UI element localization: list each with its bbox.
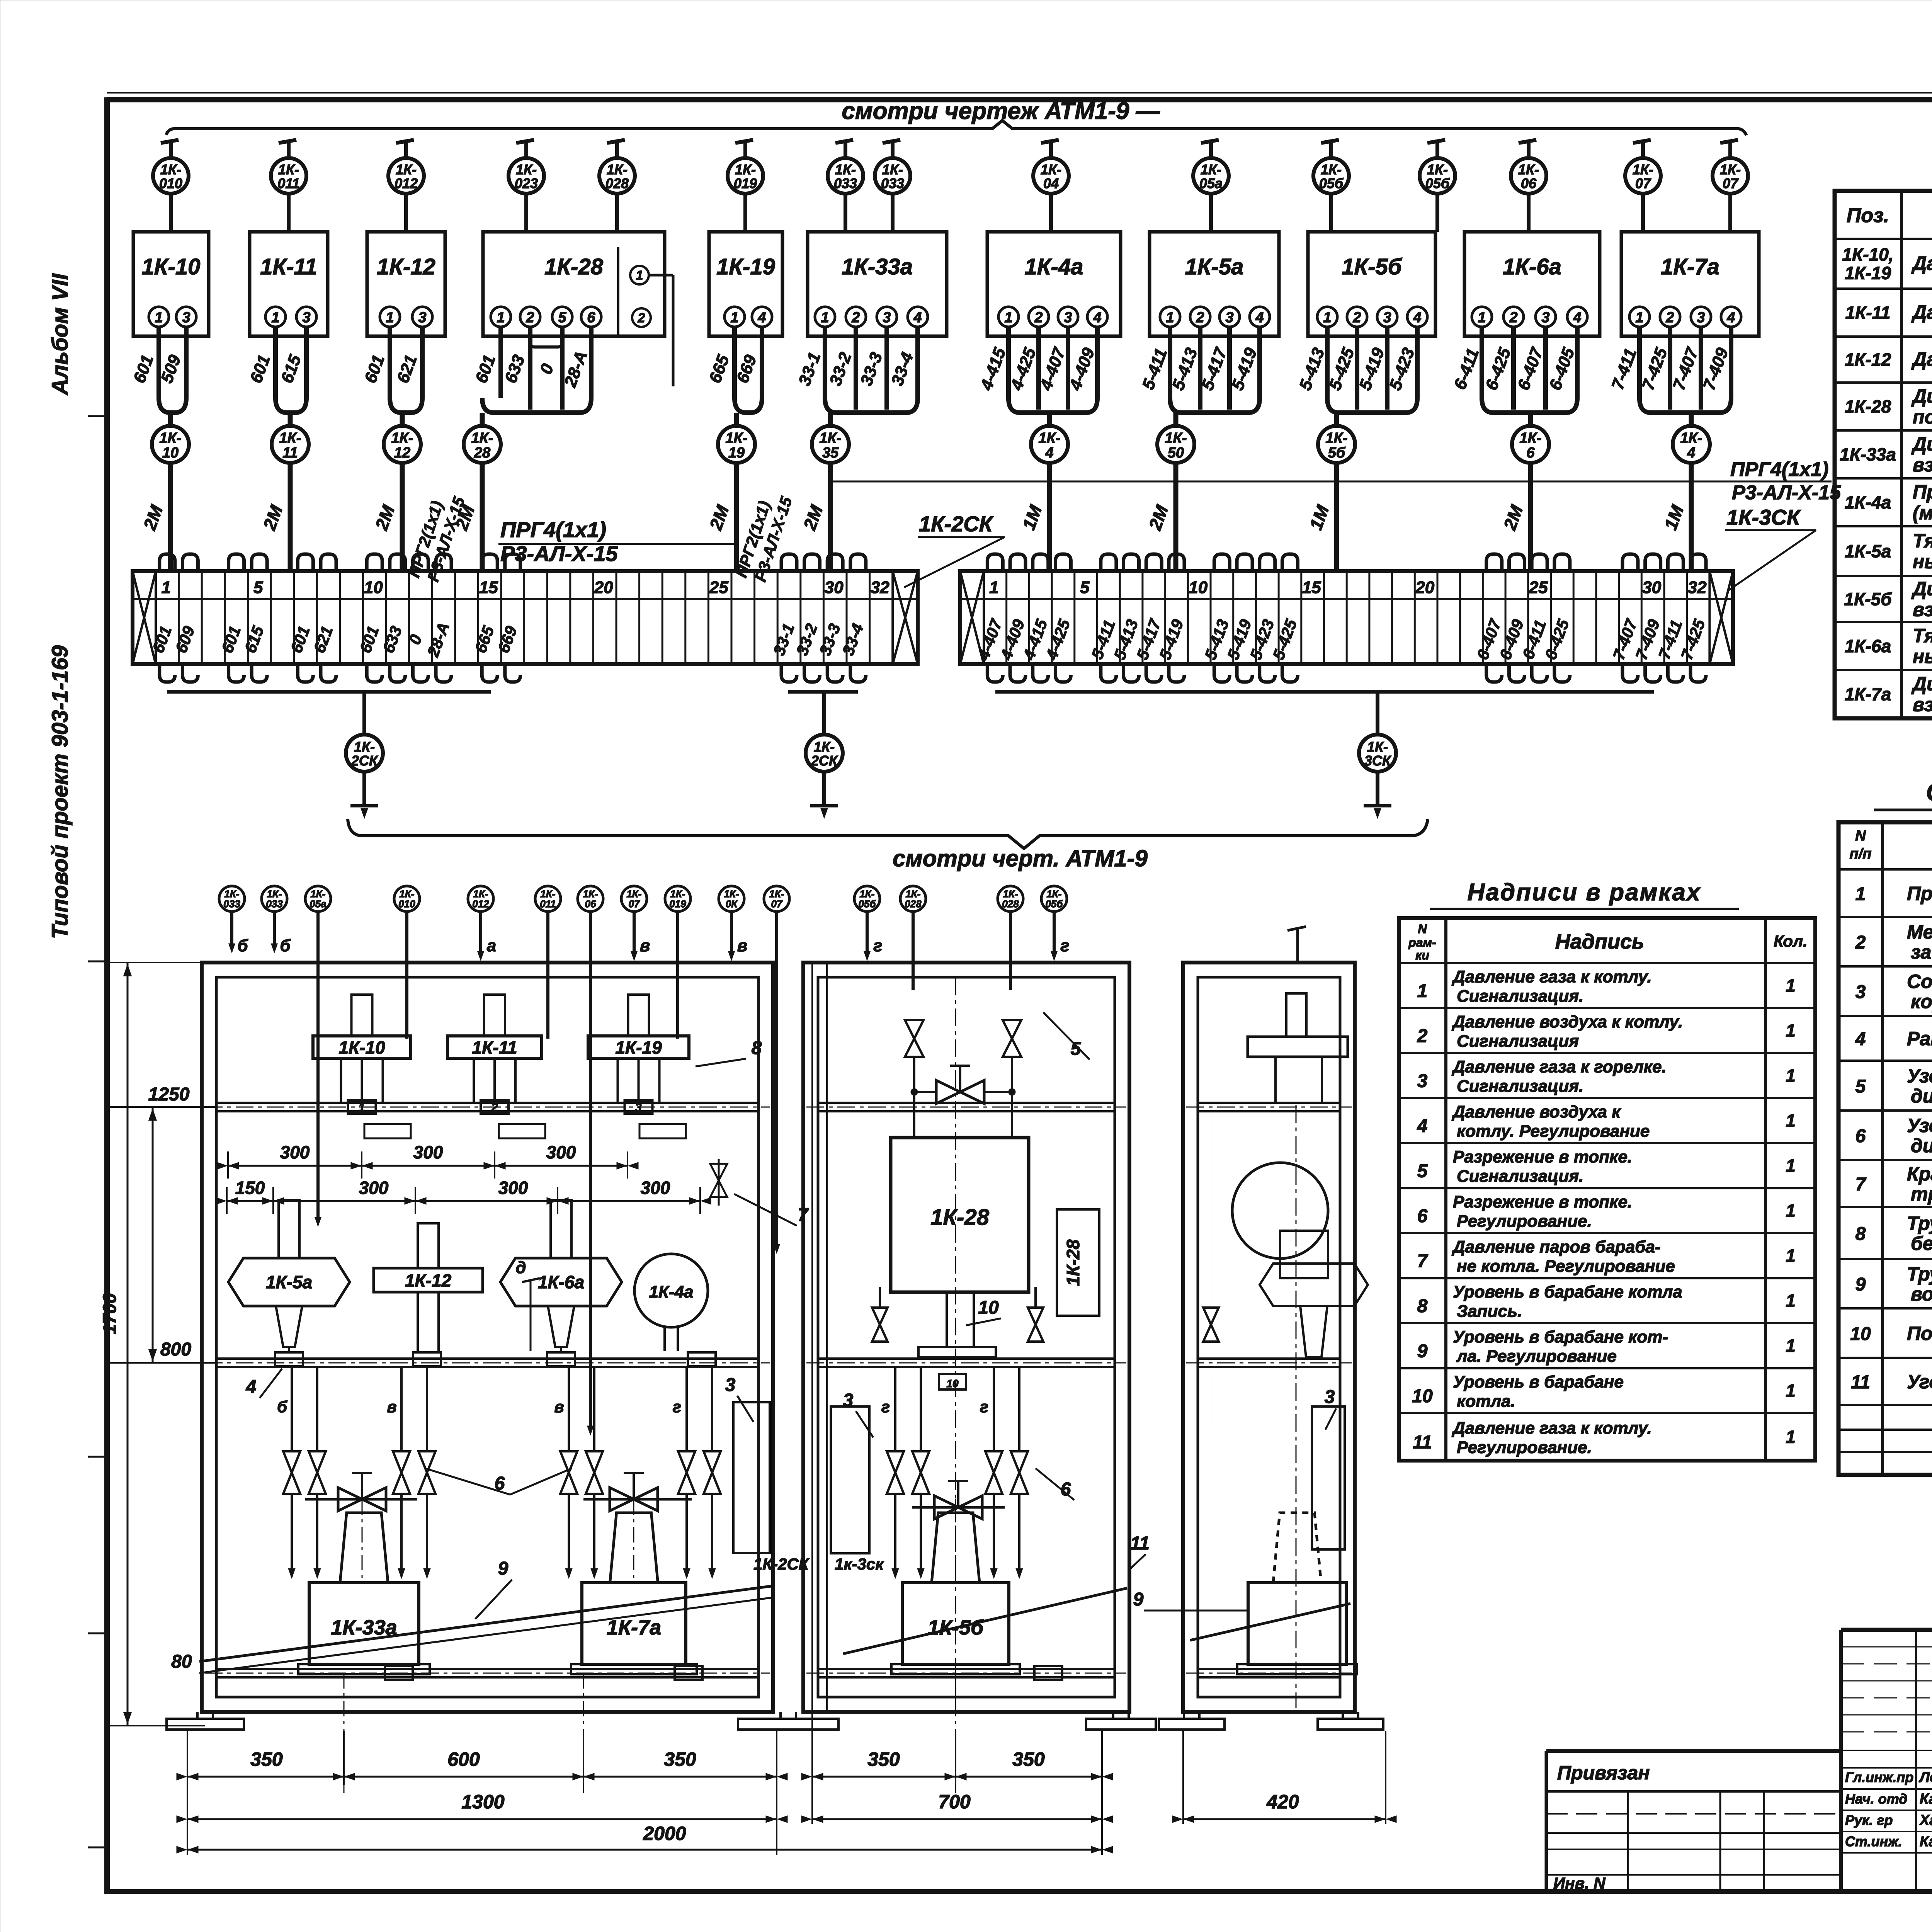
svg-text:д: д — [515, 1258, 526, 1277]
svg-text:1: 1 — [1323, 310, 1331, 326]
svg-text:1К-5а: 1К-5а — [1845, 541, 1891, 561]
svg-text:1К-: 1К- — [882, 162, 903, 177]
svg-text:1: 1 — [1786, 1201, 1796, 1221]
svg-text:4: 4 — [1045, 445, 1053, 461]
svg-text:2: 2 — [491, 1101, 498, 1114]
svg-text:1К-: 1К- — [279, 430, 301, 446]
svg-text:1К-28: 1К-28 — [930, 1205, 989, 1230]
svg-text:Гл.инж.пр: Гл.инж.пр — [1845, 1769, 1913, 1785]
svg-text:05а: 05а — [1199, 175, 1223, 191]
svg-text:19: 19 — [728, 445, 745, 461]
svg-text:2: 2 — [851, 310, 860, 326]
svg-text:1: 1 — [1786, 1381, 1796, 1401]
svg-text:3: 3 — [843, 1390, 854, 1411]
svg-text:4: 4 — [1855, 1029, 1866, 1049]
svg-text:1К-11: 1К-11 — [260, 254, 317, 279]
svg-text:6: 6 — [1417, 1206, 1428, 1226]
svg-text:3: 3 — [883, 310, 891, 326]
svg-text:1: 1 — [162, 578, 171, 597]
svg-text:1: 1 — [271, 310, 279, 326]
svg-text:350: 350 — [250, 1748, 283, 1770]
svg-text:Надписи в рамках: Надписи в рамках — [1468, 879, 1701, 906]
svg-text:1К-7а: 1К-7а — [607, 1616, 661, 1639]
svg-text:1К-7а: 1К-7а — [1661, 254, 1719, 279]
svg-text:010: 010 — [398, 898, 415, 910]
svg-text:1К-: 1К- — [1633, 162, 1653, 177]
svg-text:20: 20 — [594, 578, 613, 597]
svg-text:Поз.: Поз. — [1847, 204, 1889, 227]
svg-text:Труба стальная: Труба стальная — [1907, 1213, 1932, 1234]
svg-text:019: 019 — [669, 898, 686, 910]
svg-text:Сигнализация.: Сигнализация. — [1457, 1077, 1583, 1096]
svg-text:п/п: п/п — [1850, 846, 1872, 862]
svg-text:5: 5 — [1855, 1077, 1866, 1097]
svg-text:показывающий сигнализирующ.: показывающий сигнализирующ. — [1913, 406, 1932, 428]
svg-text:6: 6 — [1526, 445, 1535, 461]
svg-text:1: 1 — [1786, 1066, 1796, 1086]
svg-text:ПРГ4(1х1): ПРГ4(1х1) — [1730, 458, 1828, 481]
svg-text:1К-28: 1К-28 — [1845, 396, 1891, 417]
svg-text:в: в — [554, 1398, 564, 1416]
svg-text:Р3-АЛ-Х-15: Р3-АЛ-Х-15 — [1732, 481, 1841, 504]
svg-text:1К-7а: 1К-7а — [1845, 684, 1891, 704]
svg-text:N: N — [1418, 922, 1427, 936]
svg-text:Рук. гр: Рук. гр — [1845, 1812, 1893, 1828]
svg-text:1: 1 — [730, 310, 738, 326]
svg-text:420: 420 — [1266, 1791, 1299, 1813]
svg-text:1: 1 — [1417, 981, 1428, 1002]
svg-text:в: в — [640, 936, 650, 955]
svg-text:3: 3 — [418, 310, 426, 326]
svg-text:07: 07 — [1635, 175, 1651, 191]
svg-text:1К-4а: 1К-4а — [649, 1282, 693, 1301]
svg-text:Узел обвязки: Узел обвязки — [1907, 1115, 1932, 1136]
svg-text:Труба: Труба — [1907, 1263, 1932, 1285]
svg-text:Узел обвязки: Узел обвязки — [1907, 1065, 1932, 1087]
svg-text:1К-5б: 1К-5б — [1342, 254, 1402, 279]
svg-text:Датчик-реле напора: Датчик-реле напора — [1911, 253, 1932, 274]
svg-text:Альбом VII: Альбом VII — [48, 273, 73, 396]
svg-text:9: 9 — [1133, 1589, 1144, 1610]
svg-text:1: 1 — [1786, 1427, 1796, 1447]
svg-text:1К-: 1К- — [835, 162, 856, 177]
svg-text:1К-: 1К- — [354, 739, 375, 755]
svg-text:028: 028 — [1002, 898, 1019, 910]
svg-text:9: 9 — [1417, 1341, 1428, 1362]
svg-text:05а: 05а — [310, 898, 326, 910]
svg-text:1К-: 1К- — [516, 162, 537, 177]
svg-text:9: 9 — [498, 1558, 509, 1579]
svg-text:300: 300 — [413, 1142, 443, 1162]
svg-text:N: N — [1855, 828, 1866, 844]
svg-text:г: г — [881, 1398, 890, 1416]
svg-text:4: 4 — [1573, 310, 1581, 326]
svg-text:1К-19: 1К-19 — [1845, 263, 1891, 283]
svg-text:10: 10 — [978, 1298, 999, 1318]
svg-text:Давление газа к горелке.: Давление газа к горелке. — [1451, 1058, 1667, 1077]
svg-text:смотри черт. АТМ1-9: смотри черт. АТМ1-9 — [893, 845, 1148, 871]
svg-text:05б: 05б — [1425, 175, 1450, 191]
svg-text:1: 1 — [1786, 1336, 1796, 1356]
svg-text:Дифманометр мембранный: Дифманометр мембранный — [1911, 578, 1932, 600]
svg-text:300: 300 — [359, 1178, 389, 1198]
svg-text:300: 300 — [280, 1142, 310, 1162]
svg-text:смотри чертеж АТМ1-9 —: смотри чертеж АТМ1-9 — — [842, 98, 1160, 124]
svg-text:1К-: 1К- — [1720, 162, 1741, 177]
svg-text:32: 32 — [871, 578, 889, 597]
svg-text:1К-: 1К- — [1325, 430, 1347, 446]
svg-text:Спецификация основных монта: Спецификация основных монтажных материал… — [1926, 778, 1932, 806]
svg-text:1К-4а: 1К-4а — [1845, 492, 1891, 512]
svg-text:3: 3 — [1417, 1071, 1428, 1092]
svg-text:Сигнализация: Сигнализация — [1457, 1032, 1579, 1051]
svg-text:1К-19: 1К-19 — [716, 254, 775, 279]
svg-text:1К-12: 1К-12 — [405, 1270, 452, 1291]
svg-text:(манометр): (манометр) — [1913, 502, 1932, 524]
svg-text:1К-3СК: 1К-3СК — [1726, 505, 1801, 529]
svg-text:150: 150 — [235, 1178, 265, 1198]
svg-text:Давление воздуха к: Давление воздуха к — [1451, 1102, 1621, 1121]
svg-text:Давление газа к котлу.: Давление газа к котлу. — [1451, 1419, 1652, 1438]
svg-text:1К-: 1К- — [607, 162, 628, 177]
svg-text:Дифманометр мембранный: Дифманометр мембранный — [1911, 433, 1932, 455]
svg-text:6: 6 — [1855, 1126, 1866, 1146]
svg-text:07: 07 — [771, 898, 783, 910]
svg-text:4: 4 — [1413, 310, 1421, 326]
svg-text:1К-: 1К- — [160, 162, 181, 177]
svg-text:г: г — [1060, 936, 1069, 955]
svg-text:Каратышева: Каратышева — [1920, 1833, 1932, 1850]
svg-text:Инв. N: Инв. N — [1553, 1874, 1606, 1892]
svg-text:5: 5 — [558, 310, 566, 326]
svg-text:3: 3 — [1855, 982, 1866, 1002]
svg-text:4: 4 — [1726, 310, 1735, 326]
svg-text:1К-: 1К- — [391, 430, 413, 446]
svg-text:10: 10 — [364, 578, 383, 597]
svg-text:50: 50 — [1168, 445, 1184, 461]
svg-text:4: 4 — [1093, 310, 1101, 326]
svg-text:6: 6 — [587, 310, 595, 326]
svg-text:11: 11 — [282, 445, 298, 461]
svg-text:Тягомер дифференциаль-: Тягомер дифференциаль- — [1913, 625, 1932, 646]
svg-text:1: 1 — [359, 1101, 365, 1114]
svg-text:1: 1 — [1166, 310, 1174, 326]
svg-text:1: 1 — [1004, 310, 1012, 326]
svg-text:7: 7 — [798, 1205, 809, 1225]
svg-text:Датчик-реле напора и тяги: Датчик-реле напора и тяги — [1911, 349, 1932, 370]
svg-text:80: 80 — [171, 1651, 192, 1672]
svg-text:10: 10 — [946, 1378, 959, 1389]
svg-text:30: 30 — [825, 578, 844, 597]
svg-text:8: 8 — [1855, 1224, 1866, 1244]
svg-text:1: 1 — [1635, 310, 1643, 326]
svg-text:1К-: 1К- — [1518, 162, 1539, 177]
svg-text:трехходовой: трехходовой — [1911, 1183, 1932, 1205]
svg-text:дифманометра: дифманометра — [1911, 1085, 1932, 1107]
svg-text:1К-: 1К- — [1680, 430, 1702, 446]
svg-text:1: 1 — [821, 310, 829, 326]
svg-text:1К-5а: 1К-5а — [1185, 254, 1244, 279]
svg-text:1К-: 1К- — [735, 162, 756, 177]
svg-text:1К-4а: 1К-4а — [1025, 254, 1083, 279]
svg-text:г: г — [873, 936, 882, 955]
svg-text:б: б — [237, 936, 248, 955]
svg-text:Разрежение в топке.: Разрежение в топке. — [1453, 1148, 1632, 1167]
svg-text:1: 1 — [1786, 976, 1796, 996]
svg-text:4: 4 — [1417, 1116, 1428, 1136]
svg-text:коробка: коробка — [1911, 991, 1932, 1012]
svg-text:1: 1 — [1786, 1156, 1796, 1176]
svg-text:9: 9 — [1855, 1274, 1866, 1295]
svg-text:2: 2 — [1417, 1026, 1428, 1046]
svg-text:012: 012 — [395, 175, 418, 191]
svg-text:1К-11: 1К-11 — [1845, 303, 1891, 323]
svg-text:1300: 1300 — [461, 1791, 504, 1813]
svg-text:028: 028 — [605, 175, 629, 191]
svg-text:2: 2 — [1855, 932, 1866, 953]
svg-text:1К-5а: 1К-5а — [266, 1272, 312, 1292]
svg-text:ла. Регулирование: ла. Регулирование — [1456, 1347, 1617, 1366]
svg-text:1К-: 1К- — [1519, 430, 1541, 446]
svg-text:15: 15 — [479, 578, 498, 597]
svg-text:защитный: защитный — [1911, 941, 1932, 963]
svg-text:4: 4 — [1687, 445, 1695, 461]
svg-text:1К-: 1К- — [1367, 739, 1388, 755]
svg-text:05б: 05б — [1045, 898, 1063, 910]
svg-text:012: 012 — [472, 898, 489, 910]
svg-text:Преобразователь давления: Преобразователь давления — [1913, 481, 1932, 503]
svg-text:1К-: 1К- — [814, 739, 835, 755]
svg-text:3: 3 — [635, 1101, 642, 1114]
svg-text:Типовой проект 903-1-169: Типовой проект 903-1-169 — [48, 645, 73, 939]
svg-text:Дифманометр, сильфонный: Дифманометр, сильфонный — [1911, 385, 1932, 407]
svg-text:700: 700 — [938, 1791, 971, 1813]
svg-text:028: 028 — [905, 898, 922, 910]
svg-text:12: 12 — [394, 445, 410, 461]
svg-text:04: 04 — [1043, 175, 1059, 191]
svg-text:взаимозаменяемый: взаимозаменяемый — [1913, 454, 1932, 476]
svg-text:2000: 2000 — [643, 1823, 686, 1844]
svg-text:1К-28: 1К-28 — [544, 254, 603, 279]
svg-text:1к-3ск: 1к-3ск — [835, 1555, 884, 1573]
svg-text:2СК: 2СК — [351, 753, 379, 769]
svg-text:033: 033 — [223, 898, 240, 910]
svg-text:1К-11: 1К-11 — [472, 1037, 517, 1058]
svg-text:033: 033 — [834, 175, 857, 191]
svg-text:4: 4 — [913, 310, 922, 326]
svg-text:2: 2 — [1034, 310, 1043, 326]
svg-text:07: 07 — [1723, 175, 1739, 191]
svg-text:8: 8 — [752, 1038, 762, 1058]
svg-text:3: 3 — [1325, 1387, 1335, 1407]
svg-text:в: в — [737, 936, 748, 955]
svg-text:2СК: 2СК — [811, 753, 838, 769]
svg-text:10: 10 — [1189, 578, 1207, 597]
svg-text:Уровень в барабане кот-: Уровень в барабане кот- — [1453, 1328, 1668, 1347]
svg-text:котлу. Регулирование: котлу. Регулирование — [1457, 1122, 1650, 1141]
svg-text:Регулирование.: Регулирование. — [1457, 1438, 1592, 1457]
svg-text:033: 033 — [881, 175, 904, 191]
svg-text:1К-28: 1К-28 — [1063, 1239, 1083, 1286]
svg-text:1К-6а: 1К-6а — [538, 1272, 584, 1292]
svg-text:3СК: 3СК — [1364, 753, 1392, 769]
svg-text:11: 11 — [1851, 1372, 1870, 1393]
svg-text:Кран контрольный: Кран контрольный — [1907, 1163, 1932, 1185]
svg-text:Уровень в барабане: Уровень в барабане — [1453, 1372, 1624, 1391]
svg-text:1К-12: 1К-12 — [1845, 350, 1891, 370]
svg-text:Надпись: Надпись — [1555, 930, 1644, 953]
svg-text:1К-: 1К- — [471, 430, 493, 446]
svg-text:7: 7 — [1855, 1174, 1867, 1195]
svg-text:ПРГ4(1х1): ПРГ4(1х1) — [500, 517, 606, 542]
svg-text:Провод гибкий: Провод гибкий — [1907, 883, 1932, 905]
svg-text:32: 32 — [1688, 578, 1707, 597]
svg-text:15: 15 — [1302, 578, 1321, 597]
svg-text:Левитан: Левитан — [1918, 1769, 1932, 1786]
svg-text:1К-: 1К- — [1427, 162, 1448, 177]
svg-text:Подставка: Подставка — [1907, 1323, 1932, 1344]
svg-text:ки: ки — [1415, 948, 1429, 962]
svg-text:1К-10: 1К-10 — [338, 1037, 385, 1058]
svg-text:1К-10: 1К-10 — [142, 254, 201, 279]
svg-text:Дифманометр мембранный: Дифманометр мембранный — [1911, 673, 1932, 695]
svg-text:011: 011 — [277, 175, 299, 191]
svg-text:10: 10 — [1412, 1386, 1433, 1406]
svg-text:2: 2 — [1352, 310, 1361, 326]
svg-text:1: 1 — [497, 310, 505, 326]
svg-text:8: 8 — [1417, 1296, 1428, 1316]
svg-text:10: 10 — [162, 445, 179, 461]
svg-text:033: 033 — [266, 898, 283, 910]
svg-text:4: 4 — [1255, 310, 1264, 326]
svg-text:2: 2 — [526, 310, 534, 326]
svg-text:07: 07 — [629, 898, 640, 910]
svg-text:1К-33а: 1К-33а — [842, 254, 913, 279]
svg-text:11: 11 — [1130, 1533, 1150, 1554]
svg-text:ный: ный — [1913, 551, 1932, 573]
svg-text:1К-6а: 1К-6а — [1845, 636, 1891, 656]
svg-text:Металлорукав: Металлорукав — [1907, 921, 1932, 943]
svg-text:Привязан: Привязан — [1557, 1762, 1650, 1784]
svg-text:019: 019 — [734, 175, 757, 191]
svg-text:011: 011 — [540, 898, 556, 910]
svg-text:3: 3 — [302, 310, 310, 326]
svg-text:3: 3 — [725, 1375, 736, 1395]
svg-text:20: 20 — [1415, 578, 1434, 597]
svg-text:Тягомер дифференциаль-: Тягомер дифференциаль- — [1913, 530, 1932, 552]
svg-text:котла.: котла. — [1457, 1392, 1515, 1411]
svg-text:350: 350 — [867, 1748, 900, 1770]
svg-text:25: 25 — [1529, 578, 1548, 597]
svg-text:1К-12: 1К-12 — [377, 254, 435, 279]
svg-text:1К-2СК: 1К-2СК — [753, 1555, 810, 1573]
svg-text:1К-5б: 1К-5б — [1844, 589, 1892, 609]
svg-text:1250: 1250 — [148, 1084, 190, 1105]
svg-text:а: а — [487, 936, 496, 955]
svg-text:2: 2 — [1665, 310, 1674, 326]
svg-text:1: 1 — [386, 310, 394, 326]
svg-text:1: 1 — [1478, 310, 1486, 326]
svg-text:1: 1 — [1786, 1020, 1796, 1041]
svg-text:Соединительная: Соединительная — [1907, 971, 1932, 992]
svg-text:10: 10 — [1850, 1324, 1871, 1344]
svg-text:3: 3 — [1383, 310, 1391, 326]
svg-text:350: 350 — [1012, 1748, 1045, 1770]
svg-text:1К-6а: 1К-6а — [1503, 254, 1561, 279]
svg-text:1К-: 1К- — [1201, 162, 1221, 177]
svg-text:25: 25 — [709, 578, 728, 597]
svg-text:1К-33а: 1К-33а — [1840, 444, 1896, 464]
svg-text:800: 800 — [160, 1339, 191, 1360]
svg-text:1: 1 — [989, 578, 998, 597]
svg-text:1: 1 — [1786, 1111, 1796, 1131]
svg-text:1К-: 1К- — [725, 430, 747, 446]
svg-text:7: 7 — [1417, 1251, 1429, 1272]
svg-text:11: 11 — [1413, 1432, 1432, 1453]
svg-text:б: б — [277, 1398, 287, 1416]
svg-text:Разрежение в топке.: Разрежение в топке. — [1453, 1192, 1632, 1211]
svg-text:1К-: 1К- — [159, 430, 181, 446]
svg-text:Уровень в барабане котла: Уровень в барабане котла — [1453, 1282, 1682, 1301]
svg-text:35: 35 — [822, 445, 839, 461]
svg-text:1К-10,: 1К-10, — [1842, 245, 1893, 265]
svg-text:Запись.: Запись. — [1457, 1302, 1522, 1321]
svg-text:Датчик-реле напора: Датчик-реле напора — [1911, 301, 1932, 323]
svg-text:5б: 5б — [1328, 445, 1346, 461]
svg-text:Давление паров бараба-: Давление паров бараба- — [1451, 1238, 1661, 1257]
svg-text:1: 1 — [155, 310, 163, 326]
svg-text:1К-2СК: 1К-2СК — [919, 512, 994, 536]
svg-text:Давление воздуха к котлу.: Давление воздуха к котлу. — [1451, 1012, 1683, 1031]
svg-text:Харитонова: Харитонова — [1919, 1812, 1932, 1828]
svg-text:2: 2 — [638, 311, 645, 325]
svg-text:0К: 0К — [726, 898, 738, 910]
svg-text:1К-: 1К- — [396, 162, 417, 177]
svg-text:рам-: рам- — [1408, 935, 1436, 949]
svg-text:06: 06 — [585, 898, 596, 910]
svg-text:600: 600 — [447, 1748, 480, 1770]
svg-text:5: 5 — [1417, 1161, 1428, 1182]
svg-text:Ст.инж.: Ст.инж. — [1845, 1833, 1902, 1849]
svg-text:1К-: 1К- — [1041, 162, 1061, 177]
svg-text:2: 2 — [1196, 310, 1204, 326]
svg-text:4: 4 — [757, 310, 766, 326]
svg-text:взаимозаменяемый: взаимозаменяемый — [1913, 694, 1932, 716]
svg-text:05б: 05б — [1319, 175, 1344, 191]
svg-text:1К-: 1К- — [278, 162, 299, 177]
svg-text:1: 1 — [1786, 1291, 1796, 1311]
svg-text:Регулирование.: Регулирование. — [1457, 1212, 1592, 1231]
svg-text:1К-: 1К- — [1165, 430, 1187, 446]
svg-text:Сигнализация.: Сигнализация. — [1457, 987, 1583, 1006]
svg-text:300: 300 — [641, 1178, 670, 1198]
svg-text:водогазопроводная: водогазопроводная — [1911, 1283, 1932, 1305]
svg-text:не котла. Регулирование: не котла. Регулирование — [1457, 1257, 1675, 1276]
svg-text:1К-19: 1К-19 — [615, 1037, 662, 1058]
svg-text:в: в — [387, 1398, 396, 1416]
svg-text:1: 1 — [636, 268, 643, 283]
svg-text:28: 28 — [474, 445, 491, 461]
svg-text:1К-: 1К- — [819, 430, 841, 446]
svg-text:1К-: 1К- — [1038, 430, 1060, 446]
svg-text:300: 300 — [546, 1142, 576, 1162]
svg-text:30: 30 — [1642, 578, 1661, 597]
svg-text:5: 5 — [1080, 578, 1090, 597]
svg-text:1К-: 1К- — [1321, 162, 1342, 177]
svg-text:3: 3 — [1225, 310, 1233, 326]
svg-text:3: 3 — [1697, 310, 1705, 326]
svg-text:г: г — [980, 1398, 988, 1416]
